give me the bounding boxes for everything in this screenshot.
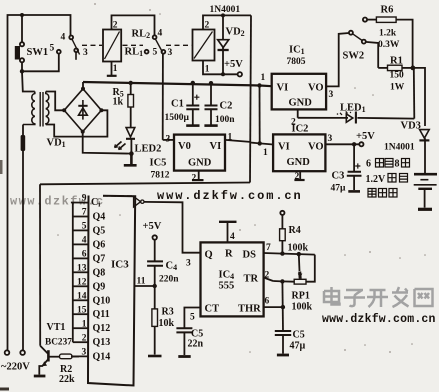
svg-text:Q11: Q11: [93, 309, 110, 320]
svg-text:1N4001: 1N4001: [210, 5, 241, 15]
terminal +5V logic: [359, 142, 363, 146]
ground stub R3: [148, 355, 162, 358]
svg-text:6: 6: [265, 297, 270, 307]
svg-text:SW1: SW1: [27, 47, 49, 58]
svg-text:LED1: LED1: [340, 103, 366, 115]
svg-text:DS: DS: [243, 250, 257, 261]
wire buffer to IC4 Q: [144, 202, 201, 253]
svg-text:R1: R1: [390, 56, 403, 67]
svg-text:IC1: IC1: [289, 45, 305, 57]
pin 7 wire DS: [264, 253, 315, 255]
svg-text:+5V: +5V: [356, 131, 375, 142]
node C4 R3 junction: [153, 284, 157, 288]
svg-text:VT1: VT1: [47, 322, 66, 333]
svg-text:RL2: RL2: [132, 29, 151, 41]
svg-text:Q9: Q9: [93, 281, 106, 292]
node +5V C3 branch: [352, 142, 356, 146]
svg-text:100n: 100n: [215, 115, 235, 125]
wire junction down to LED1 wire: [413, 68, 416, 119]
svg-text:3: 3: [328, 134, 333, 144]
svg-text:7812: 7812: [151, 171, 170, 181]
svg-text:VO: VO: [308, 142, 324, 153]
wire primary to fuse to mains: [22, 125, 24, 351]
svg-text:1500µ: 1500µ: [165, 113, 190, 123]
LED LED1: [346, 112, 356, 124]
svg-text:7: 7: [82, 208, 87, 218]
svg-text:Q5: Q5: [93, 225, 106, 236]
node bridge top: [81, 87, 85, 91]
IC3 output labels: [91, 197, 110, 362]
node regulator input branch bottom: [258, 141, 262, 145]
potentiometer RP1: [273, 254, 315, 284]
svg-text:VI: VI: [277, 83, 289, 94]
pin rung 12: [73, 285, 89, 287]
pin 11 wire IC3: [135, 285, 155, 287]
svg-text:2: 2: [192, 174, 197, 184]
svg-text:Q: Q: [205, 250, 213, 261]
svg-text:R4: R4: [289, 225, 301, 236]
svg-text:+5V: +5V: [224, 59, 243, 70]
svg-text:100k: 100k: [288, 243, 309, 254]
svg-text:1: 1: [228, 133, 233, 143]
regulator IC5 7812 box: [163, 135, 250, 181]
svg-text:C3: C3: [332, 171, 345, 182]
svg-text:1: 1: [261, 73, 266, 83]
pin 6 wire THR: [264, 306, 283, 308]
node TR branch: [280, 279, 284, 283]
svg-text:8: 8: [395, 159, 400, 170]
node R5 top: [129, 81, 133, 85]
svg-text:2: 2: [82, 333, 87, 343]
terminal R4 top: [280, 211, 284, 215]
svg-text:GND: GND: [188, 158, 212, 169]
svg-text:LED2: LED2: [135, 144, 162, 155]
wire stub below contact 3 group1: [75, 53, 77, 60]
wire SW2 to R1: [366, 42, 379, 68]
pin rung 5: [73, 229, 89, 231]
battery label 蓄电池: [368, 189, 397, 198]
svg-text:Q10: Q10: [93, 295, 111, 306]
svg-text:4: 4: [230, 232, 235, 242]
fuse on mains lead: [21, 135, 26, 151]
buffer triangle at IC3 clock: [134, 197, 141, 208]
wire SW1 drop: [21, 15, 23, 42]
relay coil RL1: [193, 15, 252, 74]
svg-text:IC2: IC2: [292, 124, 309, 135]
svg-text:555: 555: [219, 281, 235, 292]
wire main DC bus: [83, 82, 272, 86]
wire contact3 group2 down to IC5 VO: [162, 54, 164, 140]
svg-text:22n: 22n: [188, 339, 204, 350]
svg-text:3: 3: [166, 135, 171, 145]
svg-text:Q7: Q7: [93, 253, 106, 264]
relay contact group 2 : contact 4: [153, 35, 157, 39]
LED LED2: [126, 128, 135, 154]
node bridge left: [62, 108, 66, 112]
svg-text:VO: VO: [308, 83, 324, 94]
svg-text:Q4: Q4: [93, 212, 106, 223]
svg-text:TR: TR: [244, 274, 259, 285]
terminal +5V C4: [153, 235, 157, 239]
svg-text:R: R: [225, 249, 233, 260]
pin 4 stub and bar: [219, 222, 237, 243]
svg-text:6: 6: [366, 159, 371, 170]
svg-text:47µ: 47µ: [331, 184, 347, 194]
svg-text:1: 1: [263, 148, 268, 158]
svg-text:www.dzkfw.com.cn: www.dzkfw.com.cn: [157, 189, 303, 203]
watermark gray 子: [344, 290, 365, 306]
plus sign C3: [355, 163, 360, 168]
bubble at buffer output: [141, 200, 144, 203]
IC3 pin ladder rail: [72, 203, 74, 343]
svg-text:SW2: SW2: [343, 51, 365, 62]
svg-text:1: 1: [205, 65, 210, 75]
svg-text:THR: THR: [238, 304, 261, 315]
svg-text:5: 5: [153, 48, 158, 58]
pin rung 14: [73, 299, 89, 301]
relay contact group 1 : contact 3: [74, 48, 78, 52]
svg-text:1W: 1W: [390, 83, 405, 93]
wire junction to VD3 branch: [413, 68, 425, 126]
transformer core: [40, 92, 43, 127]
wire to contact 5: [22, 54, 59, 72]
svg-text:14: 14: [77, 291, 87, 301]
wire pin 2 TR: [264, 278, 274, 282]
wire secondary top to bridge: [46, 92, 64, 111]
pin rung 9: [71, 202, 89, 204]
watermark gray 电: [324, 287, 340, 305]
svg-text:VD2: VD2: [226, 27, 245, 39]
svg-text:www.dzkfw.c: www.dzkfw.c: [10, 195, 105, 209]
svg-text:47µ: 47µ: [290, 341, 306, 352]
svg-text:5: 5: [82, 222, 87, 232]
diode VD2: [218, 15, 229, 74]
relay contact group 2 : contact 3: [162, 50, 166, 54]
node SW1 bottom junction: [20, 69, 24, 73]
svg-text:+5V: +5V: [143, 221, 162, 232]
svg-text:22k: 22k: [59, 374, 75, 385]
svg-text:6: 6: [82, 250, 87, 260]
svg-text:5: 5: [190, 313, 195, 323]
svg-text:15: 15: [77, 305, 87, 315]
wire regulator input branch: [259, 86, 261, 144]
svg-text:13: 13: [77, 263, 87, 273]
svg-text:220n: 220n: [159, 275, 179, 285]
svg-text:Q8: Q8: [93, 267, 106, 278]
capacitor C3: [347, 144, 362, 191]
LED2 emission arrows: [115, 142, 126, 150]
svg-text:100k: 100k: [292, 302, 313, 313]
svg-text:C5: C5: [293, 330, 305, 341]
svg-text:4: 4: [61, 33, 66, 43]
pin rung 13: [73, 271, 89, 273]
node bridge bottom: [81, 130, 85, 134]
resistor R5: [128, 83, 134, 128]
node C1 top: [191, 81, 195, 85]
svg-text:7: 7: [266, 243, 271, 253]
resistor R4: [280, 215, 286, 254]
svg-text:C2: C2: [220, 101, 233, 112]
svg-text:Q12: Q12: [93, 323, 111, 334]
svg-text:R6: R6: [381, 5, 394, 16]
svg-text:R3: R3: [162, 307, 174, 318]
capacitor C5 control: [176, 328, 192, 356]
svg-text:RL1: RL1: [125, 47, 144, 59]
svg-text:CT: CT: [205, 304, 220, 315]
terminal mains A: [5, 350, 10, 355]
svg-text:10k: 10k: [159, 318, 175, 329]
svg-text:2: 2: [295, 172, 300, 182]
svg-text:2: 2: [113, 21, 118, 31]
wire relay rail vertical: [250, 15, 251, 182]
wire mains left: [7, 44, 9, 350]
terminal R6 left: [363, 18, 367, 22]
relay coil RL2: [103, 15, 155, 75]
pin rung 1: [73, 327, 89, 329]
svg-text:3: 3: [329, 90, 334, 100]
terminal mains B: [20, 350, 25, 355]
plus sign C1: [194, 95, 199, 100]
pin 5 wire CT: [184, 308, 200, 328]
relay contact group 1 : contact 4: [69, 36, 73, 40]
capacitor C2: [204, 83, 217, 126]
switch SW2: [349, 31, 366, 44]
transformer T primary winding: [23, 92, 35, 125]
svg-text:IC5: IC5: [150, 158, 167, 169]
svg-text:IC4: IC4: [219, 270, 235, 282]
relay contact group 2 : contact 5: [145, 50, 149, 54]
svg-text:www.dzkfw.com.cn: www.dzkfw.com.cn: [322, 313, 436, 326]
watermark gray 网: [415, 289, 433, 306]
node bridge right: [99, 108, 103, 112]
node regulator input branch top: [257, 83, 261, 87]
svg-text:VD1: VD1: [47, 138, 66, 150]
pin rung 15: [73, 313, 89, 315]
svg-text:1: 1: [113, 64, 118, 74]
svg-text:5: 5: [50, 44, 55, 54]
node R1 R6 junction: [411, 66, 416, 71]
bridge rectifier VD1 diamond: [64, 89, 101, 132]
node VD2 top: [221, 13, 225, 17]
IC IC4 555 box: [201, 242, 264, 316]
svg-text:4: 4: [82, 236, 87, 246]
svg-text:~220V: ~220V: [1, 362, 30, 373]
pin rung 6: [73, 257, 89, 259]
svg-text:3: 3: [83, 48, 88, 58]
pin rung 3 with R2: [71, 355, 88, 357]
watermark gray 发: [392, 287, 409, 307]
mechanical linkage dashed line: [82, 44, 192, 46]
ground stub LED2: [124, 154, 137, 166]
node C2 top: [209, 81, 213, 85]
svg-text:Q6: Q6: [93, 239, 106, 250]
resistor R2: [48, 354, 79, 359]
capacitor C1: [186, 83, 199, 126]
wire secondary bottom under bridge to right vertex: [46, 110, 108, 136]
svg-text:3: 3: [168, 48, 173, 58]
svg-text:Q14: Q14: [93, 351, 111, 362]
wire LED1 rail: [298, 117, 415, 120]
wire TR to THR to C5: [281, 281, 284, 330]
node R4 DS junction: [280, 251, 284, 255]
battery GB: [414, 174, 437, 209]
battery label 1.2V镍镉: [366, 174, 408, 186]
regulator IC1 7805 box: [272, 33, 349, 118]
svg-text:GND: GND: [287, 157, 311, 168]
transistor VT1: [34, 184, 49, 376]
svg-text:3: 3: [81, 348, 86, 358]
switch arm group 1: [72, 39, 80, 54]
capacitor C5 timing: [275, 331, 291, 355]
svg-text:Q13: Q13: [93, 337, 111, 348]
svg-text:4: 4: [158, 29, 163, 39]
svg-text:150: 150: [390, 71, 405, 81]
regulator IC2 box: [250, 134, 359, 180]
svg-text:12: 12: [77, 277, 87, 287]
svg-text:1k: 1k: [113, 97, 124, 108]
relay contact group 1 : contact 5: [57, 50, 61, 54]
svg-text:7805: 7805: [287, 57, 306, 67]
svg-text:11: 11: [137, 277, 146, 287]
svg-text:3: 3: [186, 259, 191, 269]
svg-text:1: 1: [82, 319, 87, 329]
transformer T secondary winding: [46, 92, 49, 125]
diode VD3: [419, 130, 429, 174]
svg-text:VD3: VD3: [401, 121, 421, 132]
svg-text:1.2k: 1.2k: [379, 29, 397, 39]
resistor R3: [152, 286, 158, 355]
svg-text:C1: C1: [171, 99, 184, 110]
svg-text:0.3W: 0.3W: [378, 40, 400, 50]
capacitor C4: [147, 240, 163, 286]
terminal +5V relay: [238, 72, 242, 76]
pin numbers IC3: [77, 194, 87, 358]
node THR branch: [281, 305, 285, 309]
pin rung 4: [73, 243, 89, 245]
node VD2 bottom: [221, 72, 225, 76]
node RP1 wiper junction: [297, 252, 301, 256]
battery label 6节或8节: [366, 159, 410, 170]
svg-text:VI: VI: [278, 142, 290, 153]
switch SW1: [15, 42, 24, 70]
node LED2 bottom: [129, 151, 134, 156]
node SW1 top junction: [20, 13, 24, 17]
pin rung 7: [73, 216, 89, 218]
wire bridge bottom to LED2 bottom: [83, 132, 132, 154]
svg-text:2: 2: [205, 21, 210, 31]
IC IC3 box: [88, 196, 135, 386]
svg-text:GND: GND: [289, 98, 313, 109]
svg-text:1N4001: 1N4001: [384, 143, 415, 153]
svg-text:C4: C4: [166, 261, 178, 273]
svg-text:IC3: IC3: [111, 259, 129, 271]
resistor R1: [378, 65, 412, 70]
switch arm group 2: [155, 39, 162, 52]
svg-text:BC237: BC237: [45, 338, 72, 348]
svg-text:V0: V0: [178, 141, 191, 152]
resistor R6: [367, 17, 412, 68]
wire bridge top to bus: [82, 82, 84, 89]
LED1 emission arrows: [340, 111, 348, 115]
svg-text:VI: VI: [210, 141, 222, 152]
wire top-left segment: [8, 15, 71, 44]
svg-text:RP1: RP1: [292, 291, 310, 302]
svg-text:2: 2: [265, 271, 270, 281]
wire SW1 to transformer primary: [22, 71, 35, 91]
wire relay rail horizontal to VT1: [40, 183, 250, 185]
svg-text:1.2V: 1.2V: [366, 174, 387, 185]
pin rung 2: [73, 341, 89, 343]
watermark gray 开: [367, 290, 388, 307]
